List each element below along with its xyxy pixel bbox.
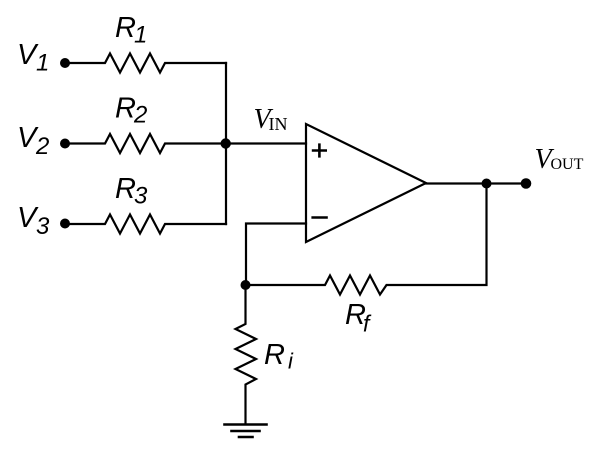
svg-text:1: 1: [134, 22, 147, 49]
svg-text:R: R: [115, 12, 136, 44]
svg-text:R: R: [264, 339, 285, 371]
svg-text:2: 2: [35, 133, 49, 160]
svg-text:2: 2: [133, 102, 147, 129]
svg-text:i: i: [288, 349, 294, 374]
svg-text:R: R: [115, 93, 136, 125]
svg-text:1: 1: [36, 50, 49, 77]
svg-text:IN: IN: [269, 114, 288, 134]
svg-text:3: 3: [134, 183, 148, 210]
svg-text:3: 3: [36, 213, 50, 240]
svg-text:f: f: [363, 311, 372, 337]
svg-text:R: R: [115, 173, 136, 205]
svg-text:OUT: OUT: [551, 156, 584, 173]
